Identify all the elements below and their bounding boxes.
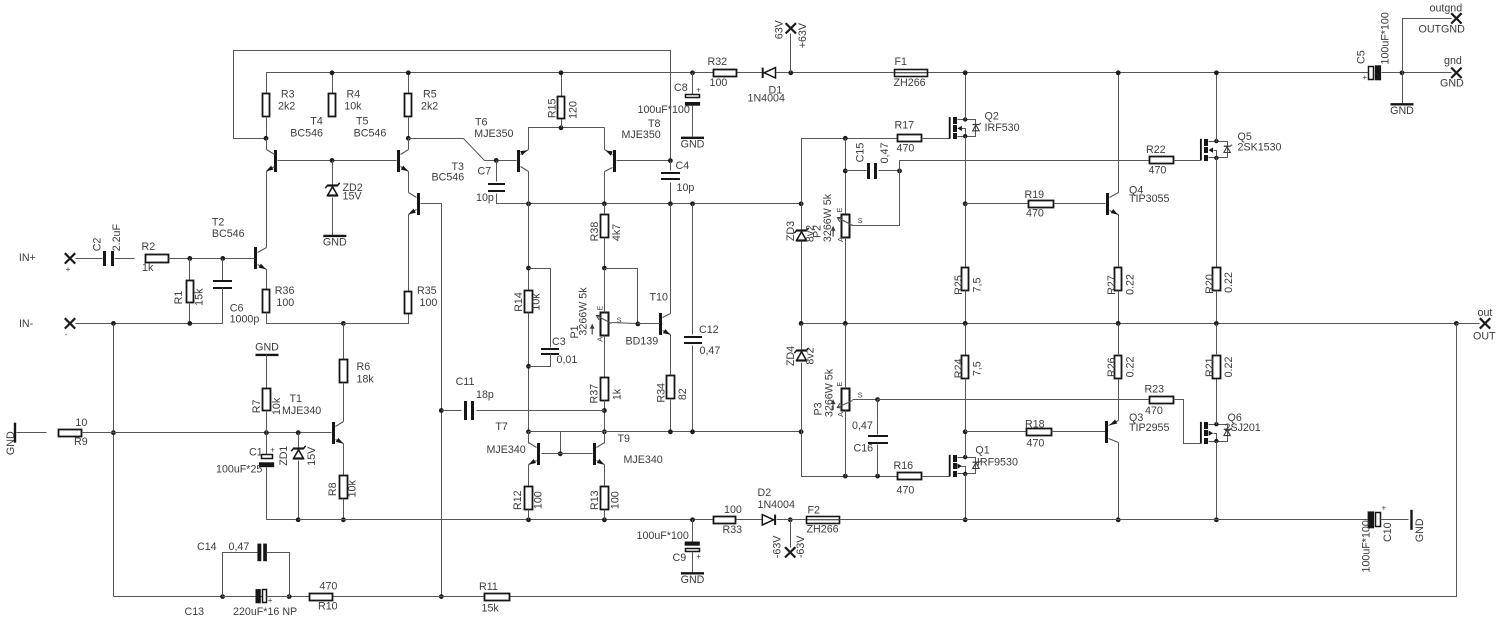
wire T7 collector stub [528,432,530,444]
wire Q2 drain up [965,73,967,120]
capacitor C1 (100uF*25) [216,446,275,476]
svg-text:2SK1530: 2SK1530 [1238,142,1282,154]
wire R2 to T2 base [169,258,255,260]
junction C11 left node [439,408,444,413]
wire T4 emitter to T2 collector [266,172,268,248]
wire top rail C5 to gnd terminal [1382,72,1452,74]
svg-text:100: 100 [533,491,545,509]
junction T9 collector node [602,429,607,434]
junction P1 top node [602,266,607,271]
svg-text:A: A [596,337,605,342]
junction C15 right node [897,169,902,174]
svg-text:R2: R2 [142,241,156,253]
resistor R24 (7,5) [953,356,984,379]
resistor R35 (100) [405,285,438,314]
svg-text:2k2: 2k2 [421,100,438,112]
junction C15 left top node [843,136,848,141]
svg-text:R16: R16 [894,460,914,472]
wire T3 base to feedback column [421,204,442,597]
junction Q2 source node [963,201,968,206]
wire R3 bottom to node [266,117,268,139]
wire Q4 emitter to R27 [1118,215,1120,268]
wire Q6 drain down [1216,442,1218,520]
svg-text:10p: 10p [476,192,494,204]
svg-text:8v2: 8v2 [805,347,817,364]
wire D2 to F2 [777,519,807,521]
wire P2 bottom wire [845,238,847,324]
wire lower middle rail [605,431,802,433]
svg-text:0,47: 0,47 [229,541,250,553]
junction T6 collector node [526,201,531,206]
zener diode ZD1 (15V) [291,446,305,459]
svg-text:R4: R4 [347,88,361,100]
wire C7 bottom to rail [497,194,529,204]
wire C6 top wire [222,259,224,282]
wire T7-T9 base rail [542,453,593,455]
wire T4-T5 base rail [278,160,397,162]
mosfet Q6 (2SJ201) [1201,412,1261,444]
transistor T5 (BC546) [354,116,409,173]
junction -63V node [788,517,793,522]
wire T3 emitter to R35 [408,215,410,292]
ground GND above R7 [255,342,279,355]
svg-text:100uF*100: 100uF*100 [1380,12,1392,64]
junction C12 top node [690,201,695,206]
svg-text:+: + [270,446,275,455]
wire R19 rail [966,203,1029,205]
junction R15 bottom on rail [559,125,564,130]
svg-text:-63V: -63V [771,535,783,558]
svg-text:100uF*100: 100uF*100 [1361,520,1373,572]
svg-text:470: 470 [1145,405,1163,417]
terminal IN+ [65,253,75,263]
resistor R33 (100) [714,504,743,536]
wire T5 collector stub [408,139,410,150]
svg-text:C1: C1 [249,447,263,459]
wire P1 wiper tie [605,269,638,324]
svg-text:0.22: 0.22 [1125,357,1137,378]
wire C14 loop right [267,553,290,597]
wire ZD3 bottom [801,242,803,324]
wire C13 left wire [223,596,256,598]
svg-text:R24: R24 [953,359,965,379]
wire T2 emitter to R36 [266,270,268,290]
svg-text:C16: C16 [854,443,874,455]
capacitor C7 (10p) [476,166,505,204]
svg-text:BC546: BC546 [432,172,465,184]
trimmer P1 (3266W 5k) [569,287,622,342]
svg-text:C5: C5 [1356,50,1368,64]
svg-text:7,5: 7,5 [972,361,984,376]
wire C3 branch bottom [529,354,551,367]
wire outgnd branch [1403,19,1452,73]
wire ZD2 to GND [332,198,334,236]
ground GND below C9 [681,573,705,586]
svg-text:1N4004: 1N4004 [748,93,785,105]
junction Q5 drain on rail [1214,70,1219,75]
svg-text:outgnd: outgnd [1430,3,1463,15]
svg-text:100uF*100: 100uF*100 [638,104,690,116]
svg-text:out: out [1478,307,1493,319]
wire C13 right wire [267,596,290,598]
junction Q2 drain on rail [963,70,968,75]
wire C14 loop [223,553,258,597]
wire -63V stub [790,520,792,548]
svg-text:R7: R7 [251,400,263,414]
wire P3 wiper wire [853,399,878,401]
resistor R7 (10k) [251,389,283,416]
svg-text:BC546: BC546 [354,127,387,139]
junction R34 bottom node [668,429,673,434]
capacitor C11 (18p) [456,376,494,420]
svg-text:C13: C13 [185,606,205,618]
wire top rail D1 to F1 [776,72,895,74]
svg-text:0.22: 0.22 [1223,272,1235,293]
wire Q3 collector down [1118,443,1120,520]
wire R9 rail to T1 base [114,432,332,434]
mosfet Q2 (IRF530) [950,111,1020,139]
wire top rail F1 to C5 [928,72,1369,74]
wire outer loop from T4 collector node to T8 base [234,51,671,161]
svg-text:R27: R27 [1106,275,1118,295]
junction Q1 drain on rail [963,517,968,522]
svg-text:R23: R23 [1145,384,1165,396]
wire C7 top wire [496,161,498,182]
junction T7 collector node [526,429,531,434]
svg-text:BC546: BC546 [290,127,323,139]
wire C1 top wire [266,433,268,455]
wire P3 top wire [845,324,847,389]
svg-text:+: + [696,85,701,94]
svg-text:1k: 1k [612,388,624,400]
svg-text:MJE340: MJE340 [282,405,321,417]
wire R24 bottom [965,379,967,432]
wire R18 to Q3 base [1052,431,1106,433]
svg-text:18p: 18p [476,389,494,401]
diode D1 (1N4004) [748,68,785,105]
wire R4 top stub [332,73,334,94]
svg-text:R9: R9 [74,436,88,448]
ground GND below ZD2 [323,236,347,249]
resistor R26 (0.22) [1106,356,1137,379]
wire T6 emitter to R15 rail [529,128,605,150]
svg-text:IN+: IN+ [19,252,36,264]
capacitor C9 (100uF*100) [637,530,702,564]
svg-text:10p: 10p [677,182,695,194]
svg-text:1000p: 1000p [230,314,260,326]
wire C15 left column [845,139,847,215]
svg-text:C3: C3 [552,336,566,348]
junction P3 bottom node [843,474,848,479]
junction C11 node [602,408,607,413]
svg-text:T1: T1 [290,393,303,405]
resistor R12 (100) [512,487,545,511]
svg-text:15V: 15V [343,191,363,203]
svg-text:MJE340: MJE340 [624,454,663,466]
svg-text:E: E [596,305,605,310]
wire T2 base wire [223,258,255,260]
junction R12 bottom on rail [526,517,531,522]
svg-text:T4: T4 [310,116,323,128]
capacitor C2 (2.2uF) [92,223,123,266]
resistor R18 (470) [1025,418,1052,449]
svg-text:100: 100 [610,491,622,509]
svg-text:ZD4: ZD4 [785,346,797,366]
svg-text:C14: C14 [197,541,217,553]
wire C4 bottom to rail [670,183,672,204]
svg-text:GND: GND [1390,105,1414,117]
wire R37 bottom [604,401,606,432]
wire Q1 drain down [965,474,967,520]
junction C8 top on rail [690,70,695,75]
svg-text:470: 470 [1027,437,1045,449]
junction R27 bottom node [1116,321,1121,326]
wire ZD1 bottom [298,461,300,520]
wire C2 to R2 [115,258,135,260]
svg-text:4k7: 4k7 [611,224,623,241]
svg-text:120: 120 [568,101,580,119]
junction ZD1 top node [296,430,301,435]
junction Q6 drain on rail [1214,517,1219,522]
svg-text:C2: C2 [92,238,104,252]
svg-text:-63V: -63V [795,535,807,558]
junction ZD1 bottom on rail [296,517,301,522]
svg-text:gnd: gnd [1444,55,1462,67]
svg-text:T10: T10 [650,291,668,303]
svg-text:100: 100 [420,297,438,309]
junction R6 top on rail [341,321,346,326]
wire gate line upper [802,139,898,204]
wire T4 collector stub [266,139,268,150]
svg-text:R17: R17 [895,119,915,131]
wire ZD3 top stub [801,204,803,230]
wire Q2 source down [965,137,967,204]
junction output loop node [1454,321,1459,326]
wire P1 wiper wire [612,323,638,324]
transistor T3 (BC546) [408,161,464,215]
junction Q3 collector on rail [1116,517,1121,522]
wire T10 base wire [638,323,660,325]
fuse F2 (ZH266) [806,505,840,536]
svg-text:TIP3055: TIP3055 [1129,193,1169,205]
svg-text:0,01: 0,01 [557,354,578,366]
junction ZD3 bottom node [799,321,804,326]
capacitor C6 (1000p) [213,280,259,326]
wire R16 to Q1 gate [922,476,950,478]
junction Q1 source node [963,429,968,434]
wire R9 to column [82,432,114,434]
junction R5/T5 collector node [406,136,411,141]
wire T8 base to C4 column [617,160,671,162]
wire C6 bottom to IN- rail [222,288,224,324]
resistor R19 (470) [1025,189,1054,220]
svg-text:R1: R1 [173,291,185,305]
resistor R4 (10k) [329,88,363,116]
svg-text:E: E [835,382,844,387]
zener diode ZD4 (8v2) [794,348,808,361]
wire C3 branch top [529,269,551,348]
wire C12 bottom wire [692,346,694,432]
svg-text:100: 100 [724,504,742,516]
wire R23 jog to Q6 gate [1174,400,1201,444]
wire T10 collector up [670,204,672,314]
svg-text:A: A [836,412,845,417]
wire R34 bottom [670,399,672,432]
svg-text:GND: GND [5,431,17,455]
svg-text:470: 470 [1149,165,1167,177]
svg-text:7,5: 7,5 [972,278,984,293]
wire R12 bottom [528,510,530,520]
wire R36 bottom to IN- rail [267,313,344,324]
junction R9 node [111,430,116,435]
svg-text:3266W 5k: 3266W 5k [822,193,834,242]
wire R21 top [1216,324,1218,356]
svg-text:C9: C9 [673,552,687,564]
svg-text:MJE350: MJE350 [474,128,513,140]
svg-text:C12: C12 [699,324,719,336]
fuse F1 (ZH266) [894,56,928,89]
junction C3 top node [526,266,531,271]
svg-text:ZH266: ZH266 [807,523,839,535]
svg-text:-: - [65,329,68,339]
svg-text:T6: T6 [475,116,488,128]
junction R1 bottom [187,321,192,326]
svg-text:100: 100 [710,77,728,89]
wire P2 wiper link [852,171,900,226]
resistor R36 (100) [263,285,295,313]
wire T7 collector-base tie [529,432,561,454]
svg-text:TIP2955: TIP2955 [1129,422,1169,434]
resistor R3 (2k2) [263,88,296,116]
junction T8 base node [668,158,673,163]
junction C16 bottom node [875,474,880,479]
svg-text:R6: R6 [357,361,371,373]
svg-text:GND: GND [681,138,705,150]
svg-text:GND: GND [255,342,279,354]
resistor R2 (1k) [142,241,169,274]
wire T8 collector to rail [604,172,606,204]
resistor R25 (7,5) [953,268,984,295]
svg-text:F1: F1 [895,56,908,68]
svg-text:S: S [858,390,863,399]
transistor Q3 (TIP2955) [1105,412,1169,443]
wire lower rail C1 to R33 [299,519,713,521]
wire R19 to Q4 base [1054,203,1106,205]
transistor T10 (BD139) [626,291,671,347]
svg-text:R34: R34 [656,383,668,403]
svg-text:10k: 10k [271,397,283,415]
junction C13 right node [287,594,292,599]
wire R27 bottom [1118,291,1120,324]
ground GND at R9 [5,423,17,455]
junction R7 bottom node [264,430,269,435]
trimmer P3 (3266W 5k) [813,368,863,417]
svg-text:GND: GND [323,237,347,249]
junction C13 left node [220,594,225,599]
ground GND at C10 [1412,510,1427,542]
wire T6 collector down [528,172,530,204]
wire R38 to P1 node [604,238,606,269]
svg-text:Q1: Q1 [975,444,989,456]
transistor T9 (MJE340) [593,433,663,466]
wire top rail R32 to D1 [736,72,763,74]
svg-text:R22: R22 [1146,144,1166,156]
svg-text:100uF*25: 100uF*25 [216,464,262,476]
svg-text:C10: C10 [1382,522,1394,542]
svg-text:R32: R32 [708,56,728,68]
svg-text:R8: R8 [327,482,339,496]
wire feedback left column [113,324,115,597]
wire Q4 collector up [1118,73,1120,193]
wire to OUT terminal [1457,323,1480,325]
svg-text:R3: R3 [281,88,295,100]
wire R7 to node [266,411,268,433]
junction ZD2 top on base rail [330,158,335,163]
wire C11 right wire [477,410,605,412]
wire ZD4 bottom / gate corner [802,363,898,477]
junction R8 bottom on rail [341,517,346,522]
svg-text:C8: C8 [674,82,688,94]
resistor R23 (470) [1145,384,1174,417]
ground GND below C5 node [1390,104,1414,117]
resistor R11 (15k) [479,581,510,615]
svg-text:R5: R5 [423,88,437,100]
svg-text:R14: R14 [513,292,525,312]
wire Q3 emitter to R26 [1118,379,1120,421]
mosfet Q1 (IRF9530) [950,444,1018,477]
transistor T1 (MJE340) [282,393,344,444]
svg-text:IRF530: IRF530 [985,122,1020,134]
svg-text:R15: R15 [546,98,558,118]
svg-text:15k: 15k [482,603,500,615]
wire IN- rail [76,323,223,325]
svg-text:10k: 10k [346,480,358,498]
svg-text:470: 470 [320,581,338,593]
svg-text:T9: T9 [618,433,631,445]
junction R20 bottom node [1214,321,1219,326]
resistor R22 (470) [1146,144,1174,176]
svg-text:2k2: 2k2 [278,100,295,112]
wire T9 collector stub [604,432,606,444]
svg-text:+: + [1363,73,1368,82]
capacitor C3 (0,01) [541,336,577,366]
svg-text:R12: R12 [512,490,524,510]
wire C16 column [877,400,879,435]
terminal GND terminal [1451,68,1461,78]
svg-text:R13: R13 [589,490,601,510]
svg-text:R26: R26 [1106,357,1118,377]
svg-text:+: + [1382,504,1387,513]
wire P1 top wire [604,269,606,313]
wire R23 line [878,399,1150,401]
svg-text:+: + [268,596,273,605]
svg-text:ZH266: ZH266 [894,77,926,89]
svg-text:10k: 10k [531,293,543,311]
wire R22 to Q5 gate [1174,160,1201,162]
wire R17 to Q2 gate [922,138,950,140]
svg-text:C7: C7 [478,166,492,178]
capacitor C14 (0,47) [197,541,267,561]
wire upper middle rail [529,203,802,205]
junction C5 right node [1400,70,1405,75]
wire Q1 source up [965,432,967,458]
junction T7 base node [558,451,563,456]
svg-text:OUT: OUT [1473,331,1496,343]
resistor R5 (2k2) [405,88,439,116]
wire P3 bottom wire [845,411,847,477]
wire C4 top wire [670,161,672,171]
wire T5 node to T6 base [409,139,517,161]
